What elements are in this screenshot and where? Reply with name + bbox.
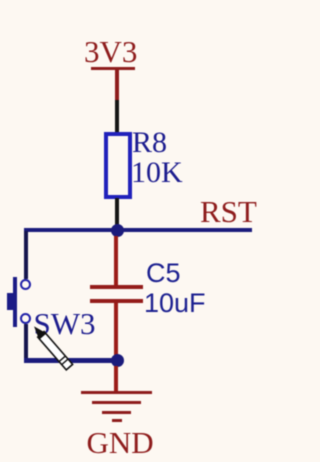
wire red junction to capacitor top: [114, 236, 118, 286]
switch SW3 actuator: [7, 293, 14, 311]
label SW3: [34, 308, 96, 339]
ground bar 3: [102, 411, 131, 414]
switch SW3 bottom terminal circle: [20, 313, 31, 324]
ground bar 2: [92, 401, 141, 404]
wire below switch bottom terminal: [24, 324, 28, 360]
switch SW3 top terminal circle: [20, 279, 31, 290]
label GND: [87, 427, 154, 458]
junction dot bottom: [111, 354, 124, 367]
value 10K: [131, 158, 183, 188]
resistor R8 body: [104, 132, 132, 199]
junction dot at RST node: [111, 224, 124, 237]
label C5: [146, 260, 181, 287]
wire red junction to ground: [114, 366, 118, 392]
wire black to resistor top: [115, 100, 119, 133]
label R8: [132, 128, 167, 158]
ground bar 4: [112, 419, 122, 422]
node RST label: [200, 196, 257, 227]
wire black resistor bottom to junction: [115, 198, 119, 228]
node 3V3 label: [84, 36, 137, 67]
power symbol 3V3 bar: [91, 67, 135, 71]
value 10uF: [144, 290, 206, 317]
wire RST horizontal: [24, 228, 252, 233]
pencil cursor: [24, 318, 84, 378]
wire bottom horizontal to junction: [24, 358, 118, 363]
capacitor C5 bottom plate: [90, 299, 143, 303]
ground bar 1: [81, 391, 152, 394]
wire red from 3V3 bar down: [115, 70, 119, 102]
switch SW3 contact bar: [13, 277, 17, 327]
wire left vertical down to switch: [24, 231, 28, 279]
capacitor C5 top plate: [90, 285, 143, 289]
wire red capacitor bottom to junction: [114, 303, 118, 358]
